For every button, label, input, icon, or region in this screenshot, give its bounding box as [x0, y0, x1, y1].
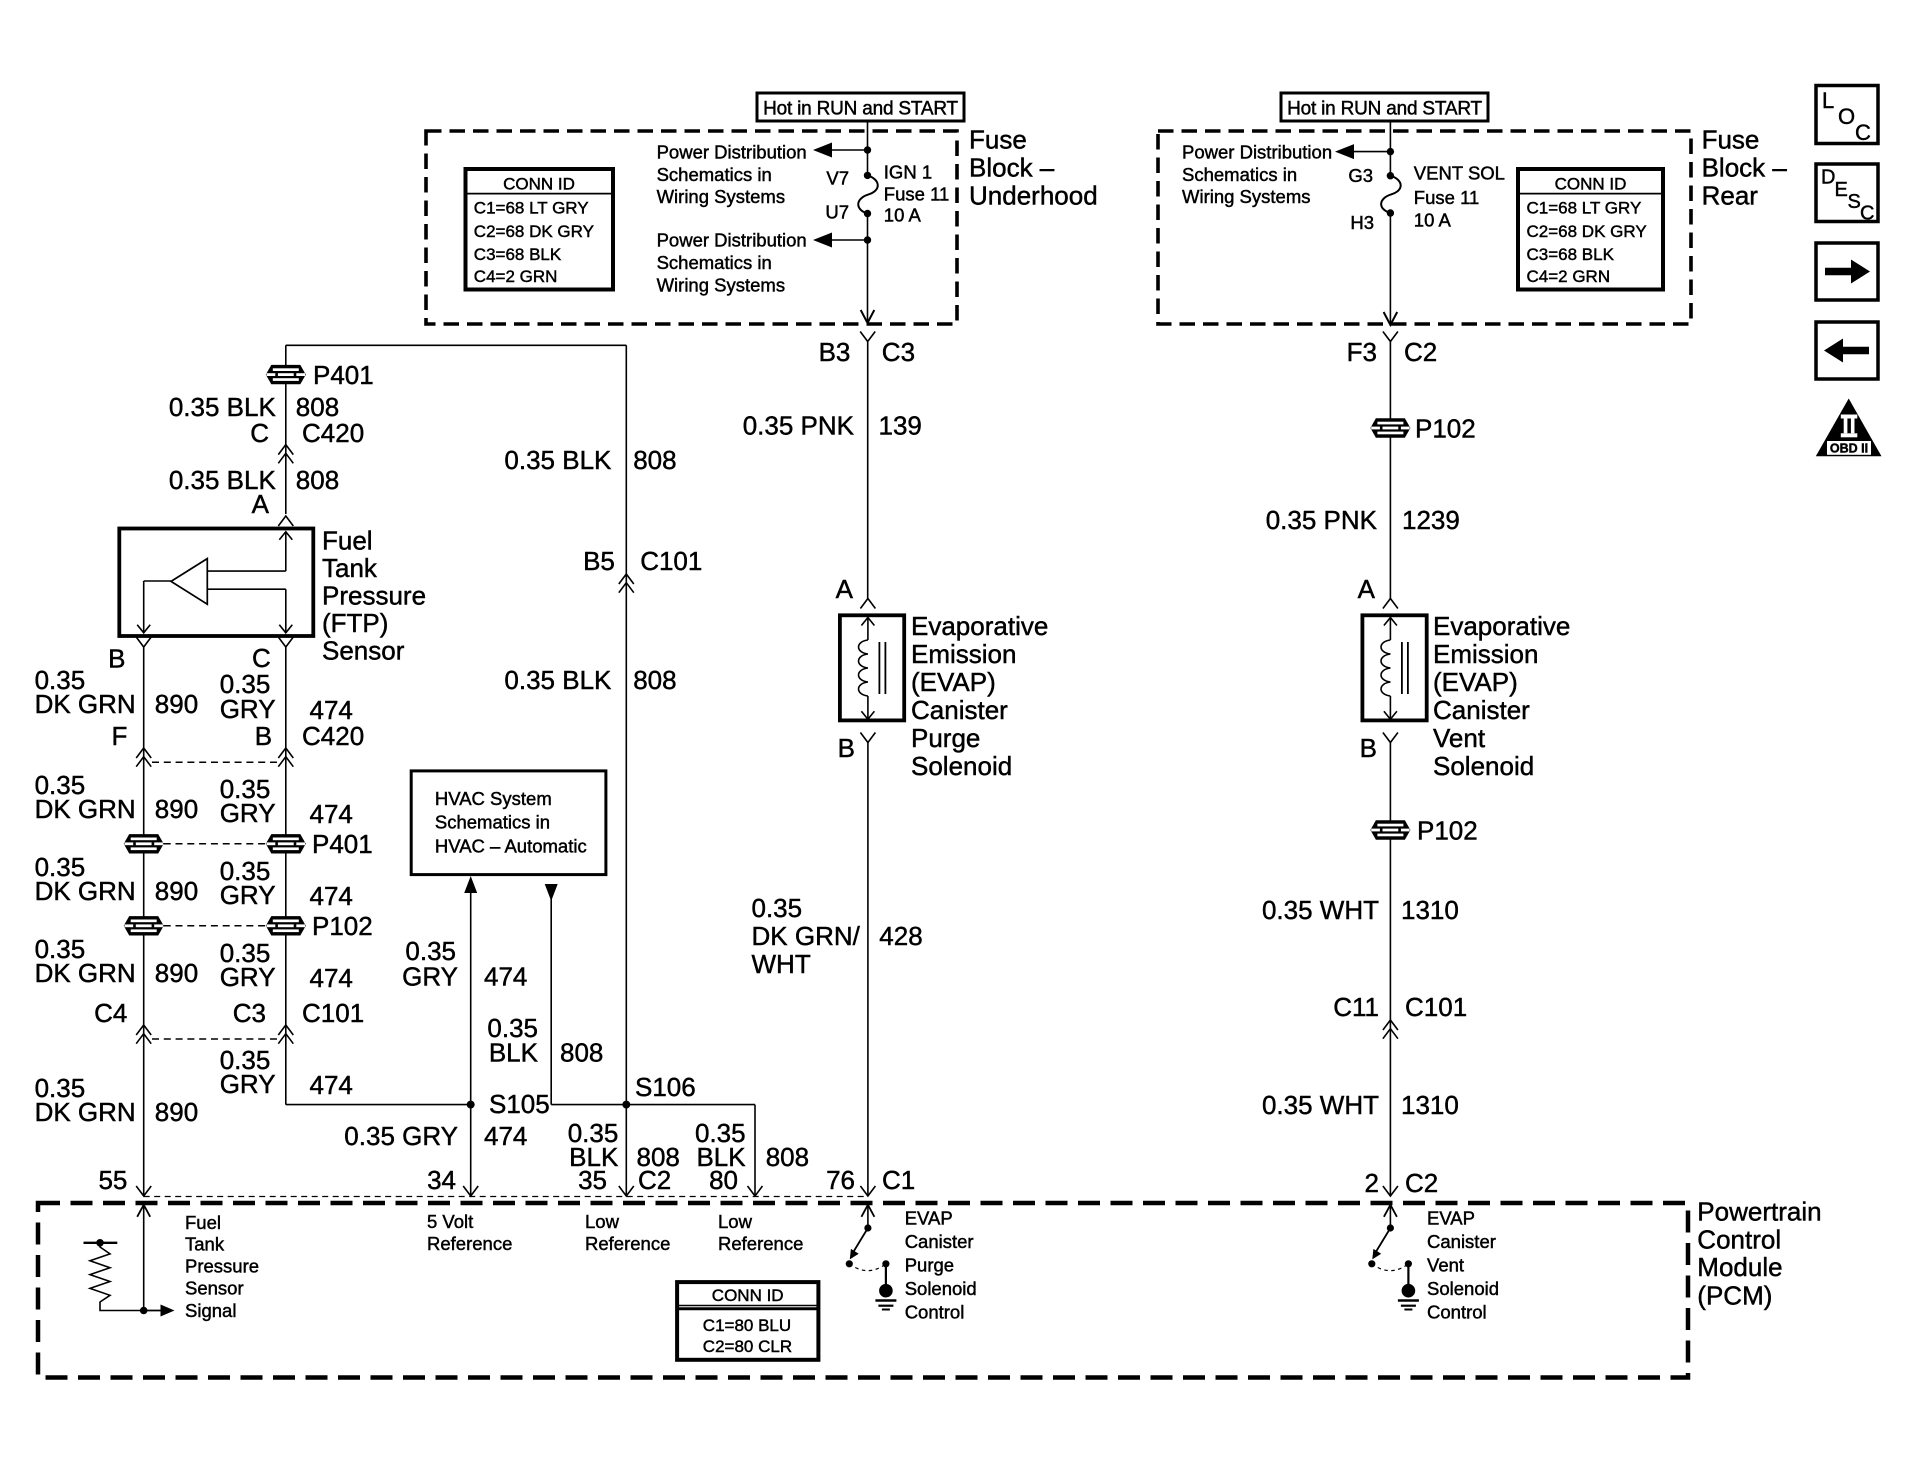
svg-text:C2=80 CLR: C2=80 CLR — [703, 1337, 792, 1356]
svg-text:890: 890 — [155, 1097, 198, 1127]
svg-text:C1: C1 — [882, 1165, 915, 1195]
svg-text:Power Distribution: Power Distribution — [1182, 141, 1332, 162]
svg-text:890: 890 — [155, 794, 198, 824]
svg-text:Solenoid: Solenoid — [1427, 1278, 1499, 1299]
svg-text:C2: C2 — [638, 1165, 671, 1195]
svg-text:Powertrain: Powertrain — [1697, 1196, 1821, 1226]
svg-text:474: 474 — [310, 881, 353, 911]
svg-text:Fuel: Fuel — [322, 526, 373, 556]
svg-text:1239: 1239 — [1402, 505, 1460, 535]
svg-text:Pressure: Pressure — [322, 581, 426, 611]
svg-text:Emission: Emission — [911, 639, 1016, 669]
svg-text:34: 34 — [427, 1165, 456, 1195]
svg-text:Pressure: Pressure — [185, 1256, 259, 1277]
svg-text:P102: P102 — [1417, 816, 1478, 846]
svg-text:Vent: Vent — [1427, 1255, 1464, 1276]
svg-text:Schematics in: Schematics in — [657, 252, 772, 273]
svg-text:C1=68 LT GRY: C1=68 LT GRY — [474, 198, 589, 217]
svg-text:Reference: Reference — [585, 1233, 670, 1254]
svg-text:Fuse 11: Fuse 11 — [884, 183, 949, 204]
svg-text:890: 890 — [155, 689, 198, 719]
svg-text:P102: P102 — [312, 911, 373, 941]
svg-text:808: 808 — [633, 665, 676, 695]
svg-text:U7: U7 — [825, 201, 849, 222]
svg-text:0.35 BLK: 0.35 BLK — [504, 665, 612, 695]
svg-text:DK GRN: DK GRN — [35, 689, 136, 719]
svg-text:5 Volt: 5 Volt — [427, 1211, 473, 1232]
svg-text:Emission: Emission — [1433, 639, 1538, 669]
svg-text:Wiring Systems: Wiring Systems — [1182, 186, 1311, 207]
svg-text:GRY: GRY — [220, 798, 276, 828]
svg-text:F: F — [112, 721, 128, 751]
svg-text:C2=68 DK GRY: C2=68 DK GRY — [1527, 222, 1647, 241]
svg-text:Module: Module — [1697, 1252, 1782, 1282]
svg-text:Purge: Purge — [911, 723, 980, 753]
svg-text:H3: H3 — [1350, 212, 1374, 233]
svg-text:Tank: Tank — [185, 1234, 225, 1255]
svg-text:Control: Control — [1427, 1301, 1487, 1322]
svg-text:428: 428 — [879, 921, 922, 951]
svg-text:B: B — [838, 733, 855, 763]
svg-text:C3=68 BLK: C3=68 BLK — [474, 245, 562, 264]
svg-text:S105: S105 — [489, 1089, 550, 1119]
svg-text:Reference: Reference — [718, 1233, 803, 1254]
svg-text:DK GRN: DK GRN — [35, 958, 136, 988]
svg-text:B: B — [108, 644, 125, 674]
svg-text:Vent: Vent — [1433, 723, 1486, 753]
svg-text:80: 80 — [709, 1165, 738, 1195]
svg-text:474: 474 — [310, 1070, 353, 1100]
svg-text:Control: Control — [905, 1301, 965, 1322]
svg-text:Evaporative: Evaporative — [1433, 611, 1570, 641]
svg-text:Solenoid: Solenoid — [1433, 751, 1534, 781]
svg-text:L: L — [1822, 88, 1834, 113]
svg-text:DK GRN/: DK GRN/ — [752, 921, 861, 951]
svg-text:HVAC System: HVAC System — [435, 788, 552, 809]
svg-text:B: B — [1360, 733, 1377, 763]
svg-text:WHT: WHT — [752, 949, 811, 979]
svg-text:C: C — [250, 418, 269, 448]
svg-text:(FTP): (FTP) — [322, 608, 388, 638]
svg-text:0.35: 0.35 — [752, 893, 803, 923]
svg-text:Wiring Systems: Wiring Systems — [657, 186, 786, 207]
svg-text:EVAP: EVAP — [905, 1208, 953, 1229]
svg-text:890: 890 — [155, 958, 198, 988]
svg-text:A: A — [836, 574, 854, 604]
svg-text:C101: C101 — [302, 998, 364, 1028]
svg-text:V7: V7 — [826, 168, 849, 189]
svg-text:DK GRN: DK GRN — [35, 794, 136, 824]
svg-text:Underhood: Underhood — [969, 181, 1098, 211]
svg-text:Canister: Canister — [1427, 1231, 1496, 1252]
svg-text:B5: B5 — [583, 546, 615, 576]
svg-text:0.35 WHT: 0.35 WHT — [1262, 895, 1379, 925]
svg-text:C2: C2 — [1405, 1168, 1438, 1198]
svg-text:0.35 WHT: 0.35 WHT — [1262, 1090, 1379, 1120]
svg-text:C1=68 LT GRY: C1=68 LT GRY — [1527, 198, 1642, 217]
svg-text:808: 808 — [296, 465, 339, 495]
svg-text:C1=80 BLU: C1=80 BLU — [703, 1316, 791, 1335]
svg-text:Sensor: Sensor — [322, 636, 405, 666]
svg-text:(EVAP): (EVAP) — [911, 667, 996, 697]
svg-text:CONN ID: CONN ID — [1555, 175, 1627, 194]
svg-text:B: B — [255, 721, 272, 751]
svg-text:E: E — [1835, 179, 1848, 201]
svg-text:Fuse: Fuse — [1702, 125, 1760, 155]
svg-text:Schematics in: Schematics in — [435, 812, 550, 833]
svg-text:C3: C3 — [233, 998, 266, 1028]
svg-text:C: C — [1855, 120, 1871, 145]
svg-text:Low: Low — [585, 1211, 620, 1232]
svg-text:Canister: Canister — [1433, 695, 1530, 725]
svg-text:Hot in RUN and START: Hot in RUN and START — [1287, 99, 1482, 120]
svg-text:808: 808 — [560, 1038, 603, 1068]
svg-text:Power Distribution: Power Distribution — [657, 229, 807, 250]
svg-text:C: C — [1860, 203, 1874, 225]
svg-text:Fuel: Fuel — [185, 1212, 221, 1233]
svg-text:C101: C101 — [1405, 992, 1467, 1022]
svg-text:0.35 PNK: 0.35 PNK — [743, 411, 855, 441]
svg-text:S: S — [1848, 191, 1861, 213]
svg-text:Block –: Block – — [1702, 153, 1788, 183]
svg-text:Power Distribution: Power Distribution — [657, 141, 807, 162]
svg-text:55: 55 — [98, 1165, 127, 1195]
svg-text:(PCM): (PCM) — [1697, 1281, 1772, 1311]
svg-text:GRY: GRY — [220, 880, 276, 910]
svg-text:A: A — [252, 489, 270, 519]
svg-text:474: 474 — [484, 962, 527, 992]
svg-text:Solenoid: Solenoid — [911, 751, 1012, 781]
svg-text:DK GRN: DK GRN — [35, 876, 136, 906]
svg-text:Low: Low — [718, 1211, 753, 1232]
svg-text:Signal: Signal — [185, 1300, 236, 1321]
svg-text:A: A — [1358, 574, 1376, 604]
svg-text:Wiring Systems: Wiring Systems — [657, 274, 786, 295]
svg-text:Evaporative: Evaporative — [911, 611, 1048, 641]
svg-text:Schematics in: Schematics in — [1182, 164, 1297, 185]
svg-text:C4=2 GRN: C4=2 GRN — [474, 267, 558, 286]
svg-text:C3: C3 — [882, 337, 915, 367]
svg-text:HVAC – Automatic: HVAC – Automatic — [435, 835, 587, 856]
svg-text:EVAP: EVAP — [1427, 1208, 1475, 1229]
svg-text:C2=68 DK GRY: C2=68 DK GRY — [474, 222, 594, 241]
svg-text:C4=2 GRN: C4=2 GRN — [1527, 267, 1611, 286]
svg-text:B3: B3 — [819, 337, 851, 367]
svg-text:S106: S106 — [635, 1072, 696, 1102]
svg-text:Schematics in: Schematics in — [657, 164, 772, 185]
svg-text:GRY: GRY — [220, 962, 276, 992]
svg-text:P102: P102 — [1415, 414, 1476, 444]
svg-text:GRY: GRY — [220, 1069, 276, 1099]
svg-text:Canister: Canister — [911, 695, 1008, 725]
svg-text:Fuse: Fuse — [969, 125, 1027, 155]
svg-text:0.35 PNK: 0.35 PNK — [1266, 505, 1378, 535]
svg-text:0.35 GRY: 0.35 GRY — [344, 1121, 458, 1151]
svg-text:Block –: Block – — [969, 153, 1055, 183]
svg-text:Fuse 11: Fuse 11 — [1414, 187, 1479, 208]
svg-text:BLK: BLK — [489, 1038, 539, 1068]
svg-text:(EVAP): (EVAP) — [1433, 667, 1518, 697]
svg-text:474: 474 — [484, 1121, 527, 1151]
svg-text:CONN ID: CONN ID — [503, 175, 575, 194]
svg-text:VENT SOL: VENT SOL — [1414, 163, 1505, 184]
svg-text:139: 139 — [879, 411, 922, 441]
svg-text:Control: Control — [1697, 1225, 1781, 1255]
svg-text:0.35 BLK: 0.35 BLK — [504, 445, 612, 475]
svg-text:Solenoid: Solenoid — [905, 1278, 977, 1299]
svg-text:10 A: 10 A — [1414, 210, 1452, 231]
svg-text:Rear: Rear — [1702, 181, 1759, 211]
svg-text:474: 474 — [310, 963, 353, 993]
svg-text:808: 808 — [766, 1142, 809, 1172]
svg-text:C420: C420 — [302, 721, 364, 751]
svg-text:474: 474 — [310, 799, 353, 829]
svg-text:890: 890 — [155, 876, 198, 906]
svg-text:1310: 1310 — [1401, 1090, 1459, 1120]
svg-text:G3: G3 — [1348, 165, 1373, 186]
svg-text:Canister: Canister — [905, 1231, 974, 1252]
svg-text:O: O — [1838, 104, 1855, 129]
svg-text:76: 76 — [826, 1165, 855, 1195]
svg-text:Reference: Reference — [427, 1233, 512, 1254]
svg-text:D: D — [1821, 167, 1835, 189]
svg-text:CONN ID: CONN ID — [712, 1286, 784, 1305]
svg-text:P401: P401 — [313, 360, 374, 390]
svg-text:35: 35 — [578, 1165, 607, 1195]
svg-text:OBD II: OBD II — [1830, 441, 1868, 455]
svg-text:10 A: 10 A — [884, 204, 922, 225]
svg-text:Purge: Purge — [905, 1255, 954, 1276]
svg-text:C4: C4 — [94, 998, 127, 1028]
svg-text:C3=68 BLK: C3=68 BLK — [1527, 245, 1615, 264]
svg-text:C11: C11 — [1333, 992, 1379, 1022]
svg-text:Sensor: Sensor — [185, 1277, 244, 1298]
svg-text:2: 2 — [1365, 1168, 1379, 1198]
svg-text:F3: F3 — [1347, 337, 1377, 367]
svg-text:DK GRN: DK GRN — [35, 1097, 136, 1127]
svg-text:IGN 1: IGN 1 — [884, 162, 932, 183]
svg-text:C420: C420 — [302, 418, 364, 448]
svg-text:1310: 1310 — [1401, 895, 1459, 925]
svg-text:P401: P401 — [312, 829, 373, 859]
svg-text:Hot in RUN and START: Hot in RUN and START — [763, 99, 958, 120]
svg-text:GRY: GRY — [402, 962, 458, 992]
svg-text:C101: C101 — [640, 546, 702, 576]
svg-text:Tank: Tank — [322, 553, 378, 583]
svg-text:808: 808 — [633, 445, 676, 475]
svg-text:C2: C2 — [1404, 337, 1437, 367]
svg-text:GRY: GRY — [220, 694, 276, 724]
